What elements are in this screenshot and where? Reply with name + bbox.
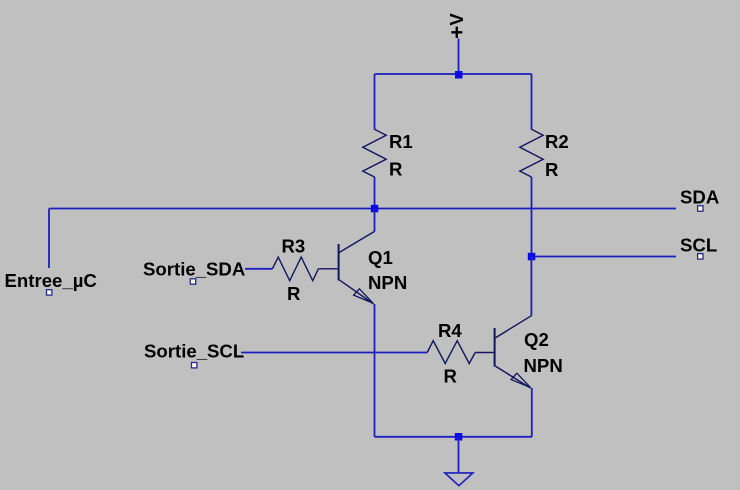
wire R1 top lead	[374, 74, 376, 130]
svg-text:R1: R1	[389, 131, 413, 152]
resistor R3	[272, 257, 318, 281]
wire ground stem	[458, 437, 460, 473]
svg-text:NPN: NPN	[368, 272, 407, 293]
svg-text:R: R	[389, 159, 403, 180]
svg-text:R: R	[287, 283, 301, 304]
wire Q2 collector to SCL junction	[530, 257, 532, 316]
transistor Q2 emitter diagonal	[495, 366, 531, 388]
transistor Q1 emitter arrow	[354, 289, 373, 303]
port Sortie_SDA terminal square	[190, 279, 195, 284]
svg-text:Sortie_SDA: Sortie_SDA	[143, 259, 245, 280]
wire Sortie_SCL to R4	[241, 352, 427, 354]
transistor Q2 emitter arrow	[511, 373, 530, 387]
svg-text:Sortie_SCL: Sortie_SCL	[144, 341, 244, 362]
wire SDA net horizontal	[49, 208, 676, 210]
svg-text:R: R	[444, 366, 458, 387]
svg-text:R2: R2	[545, 131, 569, 152]
resistor R1	[363, 129, 386, 177]
svg-text:R: R	[545, 159, 559, 180]
svg-text:Entree_µC: Entree_µC	[5, 270, 97, 291]
resistor R4	[427, 341, 475, 364]
node junction top rail	[455, 71, 463, 79]
transistor Q1 base bar	[338, 244, 340, 281]
wire ground rail bottom	[375, 436, 532, 438]
port Sortie_SCL terminal square	[192, 363, 197, 368]
wire Sortie_SDA to R3	[245, 268, 272, 270]
svg-text:Q1: Q1	[368, 247, 393, 268]
wire Q1 emitter down to ground rail	[374, 304, 376, 437]
wire Q2 emitter down to ground rail	[531, 388, 533, 437]
svg-text:SDA: SDA	[680, 187, 719, 208]
wire Q1 collector to SDA junction	[374, 209, 376, 232]
svg-text:SCL: SCL	[680, 235, 717, 256]
power +V label	[446, 13, 467, 45]
port Entree_uC terminal square	[47, 290, 52, 295]
port SDA terminal square	[698, 206, 703, 211]
node junction SDA / R1 / Q1 collector	[371, 205, 379, 213]
wire R2 top lead	[531, 74, 533, 130]
svg-text:R4: R4	[438, 320, 462, 341]
resistor R2	[520, 129, 543, 177]
wire R2 bottom lead	[531, 177, 533, 257]
transistor Q2 collector diagonal	[495, 316, 531, 338]
ground symbol triangle	[445, 473, 473, 486]
transistor Q1 collector diagonal	[339, 231, 374, 252]
svg-text:NPN: NPN	[524, 355, 563, 376]
wire +V lead	[458, 39, 460, 75]
node junction ground rail	[455, 433, 463, 441]
node junction SCL / R2 / Q2 collector	[528, 253, 536, 260]
wire R1 bottom lead	[374, 177, 376, 209]
port SCL terminal square	[698, 254, 703, 259]
svg-text:+: +	[450, 20, 463, 45]
transistor Q2 base bar	[494, 328, 496, 367]
wire R4 to Q2 base	[475, 352, 493, 354]
svg-text:R3: R3	[282, 236, 306, 257]
wire Entree_uC vertical lead	[48, 209, 50, 269]
transistor Q1 emitter diagonal	[339, 280, 374, 304]
wire R3 to Q1 base	[318, 268, 337, 270]
wire SCL net horizontal	[532, 256, 677, 258]
svg-text:Q2: Q2	[524, 329, 549, 350]
wire top rail	[375, 73, 532, 75]
